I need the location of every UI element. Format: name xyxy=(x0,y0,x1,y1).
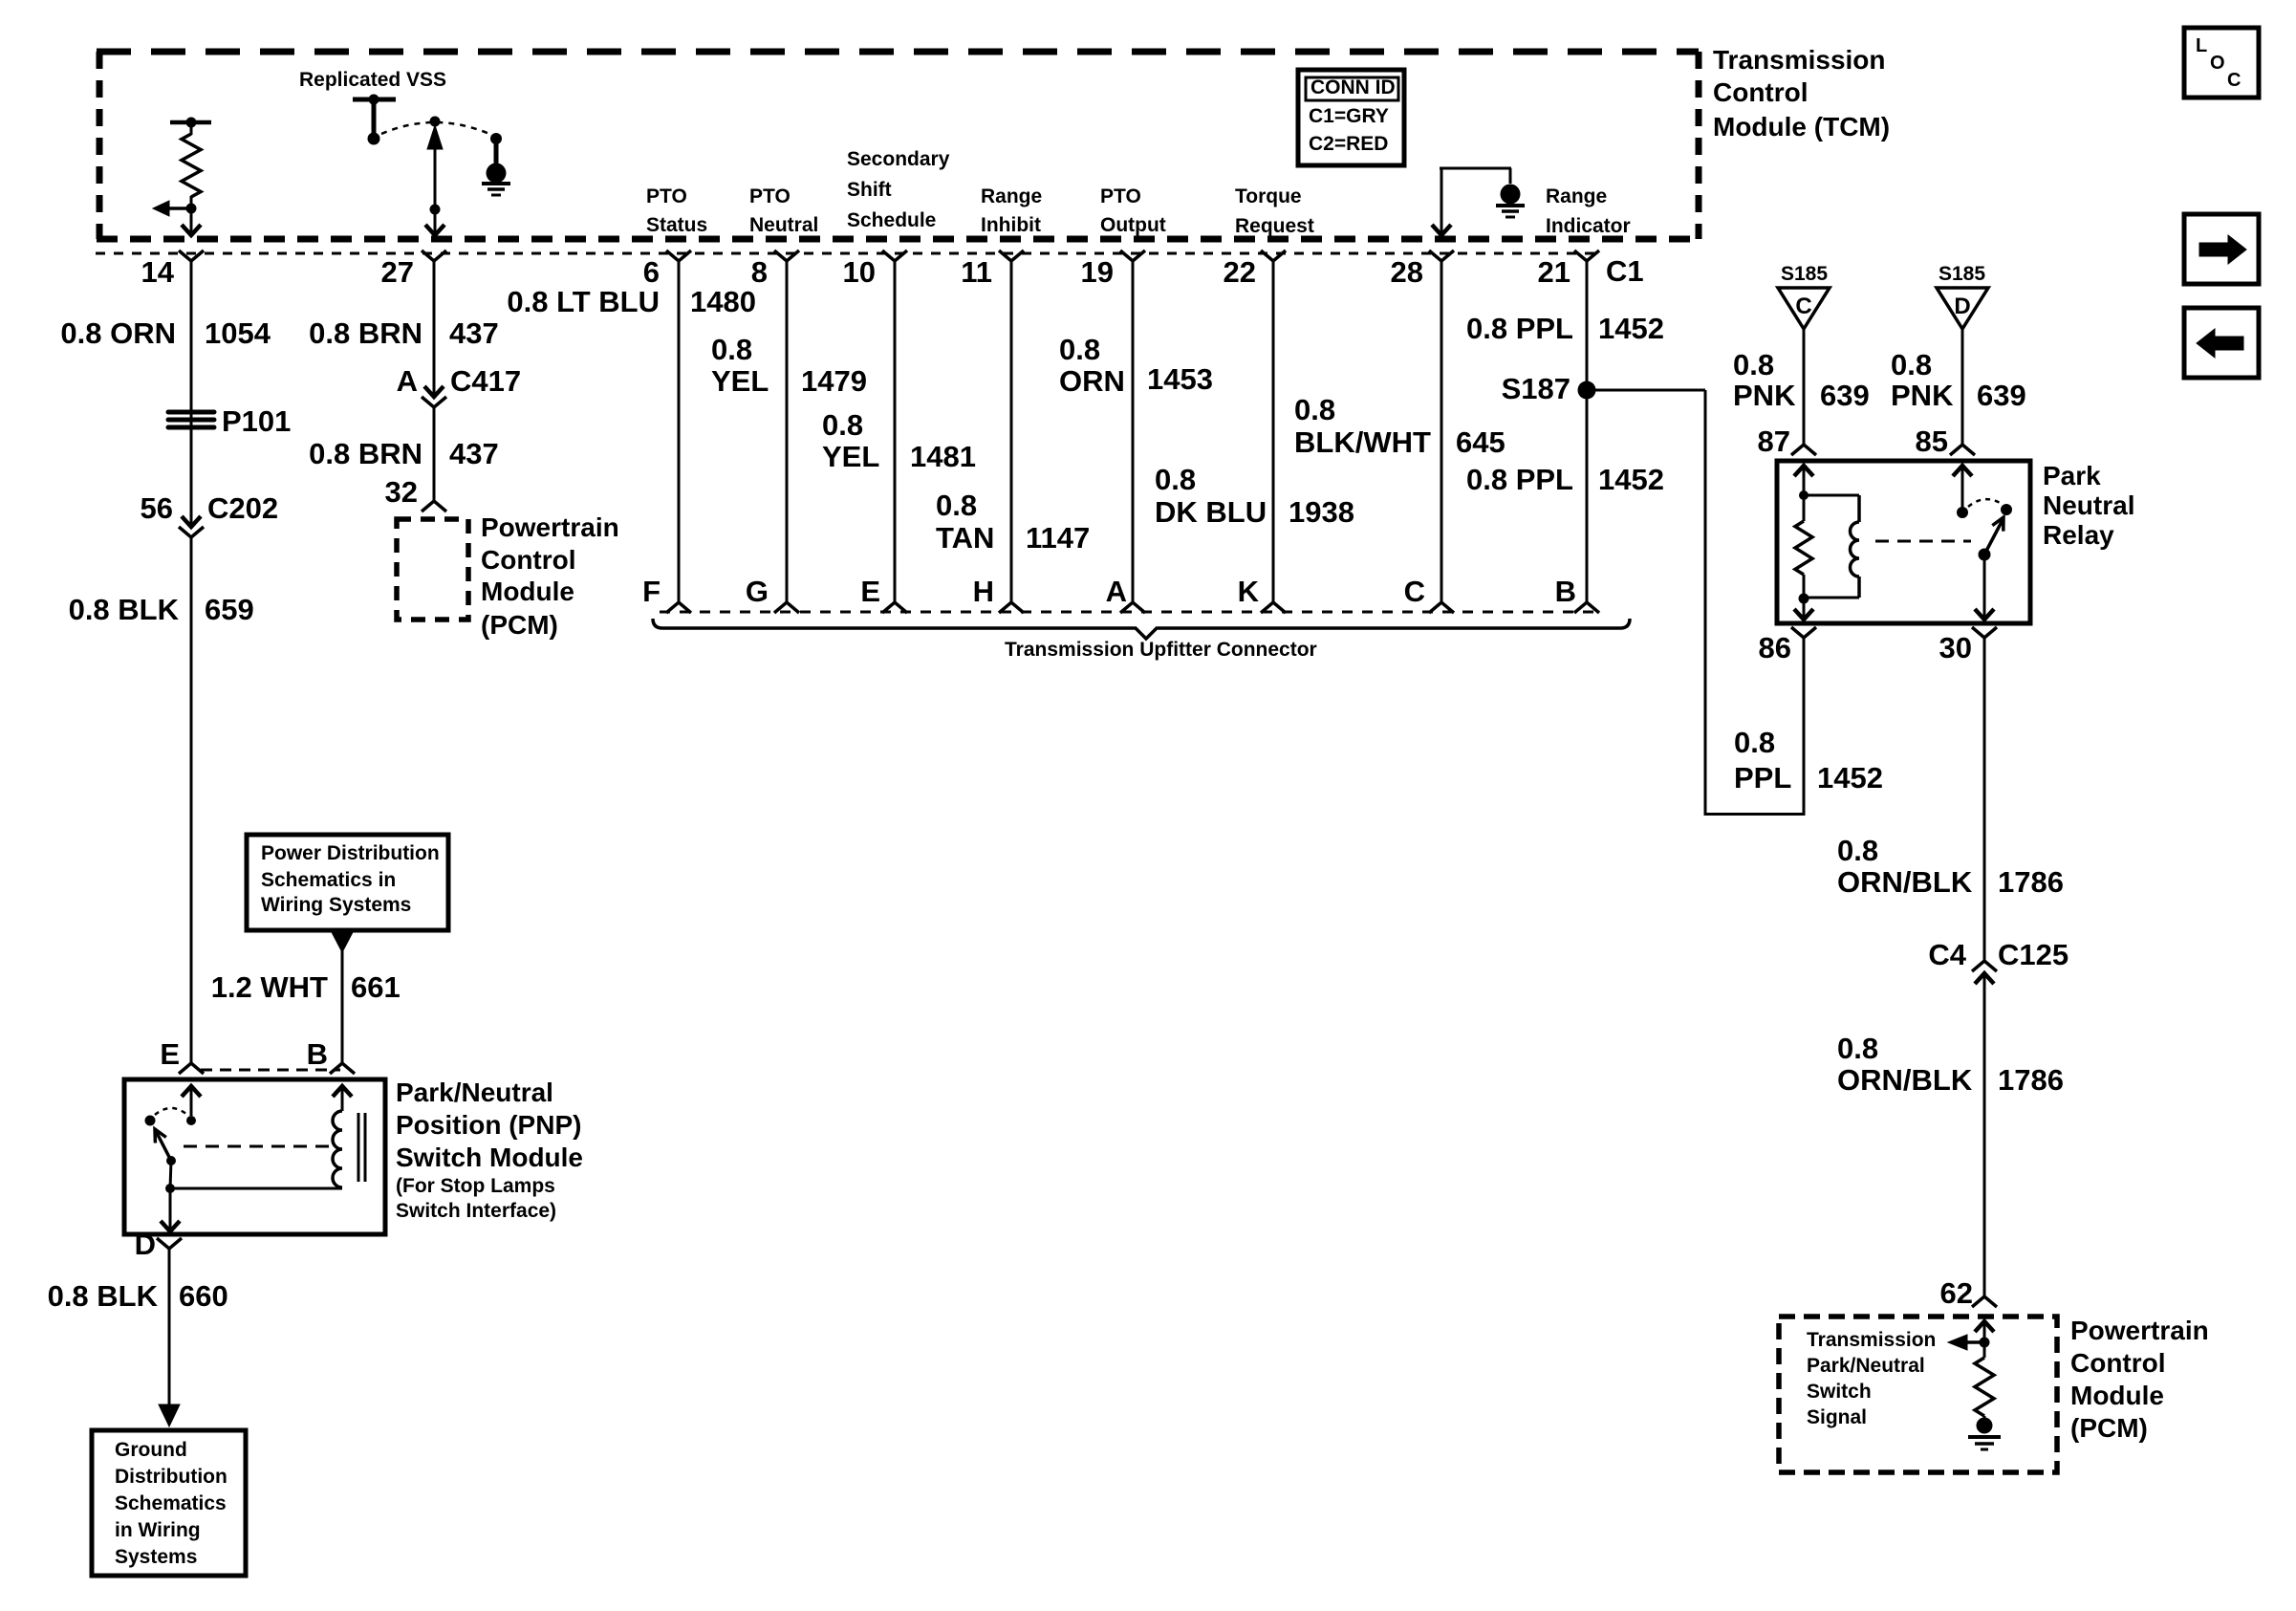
terminal: relay pin 30 terminal xyxy=(1972,627,1997,638)
wire: 0.8 BLK 659 to PNP switch pin E xyxy=(190,537,193,1063)
label: pin 87 xyxy=(1758,425,1790,458)
svg-text:Schematics in: Schematics in xyxy=(261,869,396,891)
label: pin 56 xyxy=(141,491,173,525)
svg-text:1786: 1786 xyxy=(1998,1063,2064,1097)
label: 0.8 ORN/BLK (lower) xyxy=(1837,1032,1973,1097)
svg-text:Switch Module: Switch Module xyxy=(396,1143,583,1172)
label: 0.8 ORN xyxy=(60,316,176,350)
svg-text:in Wiring: in Wiring xyxy=(115,1519,201,1541)
label: 0.8 BLK xyxy=(69,593,180,626)
label: PTO Status (pin 6) xyxy=(646,185,707,236)
label: 0.8 PPL (lower) xyxy=(1466,463,1573,496)
label: 1.2 WHT xyxy=(211,970,328,1004)
svg-text:1452: 1452 xyxy=(1817,761,1883,795)
wire: stub down to internal ground G2 xyxy=(1509,168,1512,184)
pin number 19 xyxy=(1081,255,1114,289)
terminal: upfitter connector terminal C xyxy=(1429,602,1454,613)
terminal: TCM connector terminal pin 28 xyxy=(1429,250,1454,261)
wire: dashed selection arc between VSS and pin 27 input xyxy=(381,122,489,134)
svg-text:Switch: Switch xyxy=(1807,1381,1872,1403)
module box: Powertrain Control Module (PCM) lower, dashed outline xyxy=(1779,1317,2057,1472)
wire: upfitter circuit to terminal C xyxy=(1440,261,1443,602)
wire: resistor bottom lead to junction xyxy=(190,196,193,212)
connector: TCM harness connector face (dashed) xyxy=(96,252,1598,255)
svg-text:30: 30 xyxy=(1939,631,1972,664)
node: PNP common junction dot xyxy=(165,1184,175,1193)
svg-text:Secondary: Secondary xyxy=(847,148,950,170)
svg-text:0.8 BRN: 0.8 BRN xyxy=(309,437,422,470)
svg-text:F: F xyxy=(642,575,661,608)
ground: PCM internal ground (dot with hatches) xyxy=(1968,1416,2001,1449)
switch: relay movable contact arm with arrowhead xyxy=(1984,517,2004,555)
svg-text:1479: 1479 xyxy=(801,364,867,398)
pin number 8 xyxy=(751,255,768,289)
connector C417: in-line connector symbol pin A xyxy=(422,386,446,407)
arrow: relay pin 87 entry arrowhead xyxy=(1794,466,1813,495)
node: VSS stub end dot xyxy=(368,133,380,145)
svg-text:PPL: PPL xyxy=(1734,761,1791,795)
svg-text:10: 10 xyxy=(843,255,876,289)
svg-text:659: 659 xyxy=(205,593,254,626)
svg-text:C: C xyxy=(2227,70,2241,91)
pin number 6 xyxy=(643,255,660,289)
wire: upfitter circuit to terminal A xyxy=(1132,261,1135,602)
svg-text:Park/Neutral: Park/Neutral xyxy=(396,1078,553,1107)
terminal: upfitter connector terminal K xyxy=(1261,602,1286,613)
wire: resistor bottom lead (relay) xyxy=(1803,575,1806,599)
svg-text:Range: Range xyxy=(1546,185,1607,207)
svg-text:C1: C1 xyxy=(1606,254,1644,288)
svg-text:PNK: PNK xyxy=(1891,379,1954,412)
svg-text:Distribution: Distribution xyxy=(115,1466,227,1488)
node: junction dot on pin 27 internal wire xyxy=(430,205,441,215)
pin letter C xyxy=(1404,575,1425,608)
svg-text:661: 661 xyxy=(351,970,401,1004)
label: Range Inhibit (pin 11) xyxy=(981,185,1042,236)
terminal: PCM pin 32 terminal xyxy=(422,501,446,512)
label: PTO Neutral (pin 8) xyxy=(749,185,818,236)
label: S185 (left) xyxy=(1781,263,1828,285)
svg-text:Transmission: Transmission xyxy=(1713,45,1886,75)
svg-text:56: 56 xyxy=(141,491,173,525)
label: Park Neutral Relay xyxy=(2043,461,2134,550)
svg-text:C: C xyxy=(1404,575,1425,608)
wire: 0.8 ORN 1054 from TCM pin 14 xyxy=(190,261,193,525)
label: C417 xyxy=(450,364,521,398)
wire: upfitter circuit to terminal K xyxy=(1272,261,1275,602)
svg-text:Signal: Signal xyxy=(1807,1406,1867,1428)
terminal: TCM connector terminal pin 27 xyxy=(422,250,446,261)
svg-text:CONN ID: CONN ID xyxy=(1310,76,1396,98)
svg-text:0.8: 0.8 xyxy=(1837,1032,1878,1065)
terminal: TCM connector terminal pin 21 xyxy=(1574,250,1599,261)
svg-text:C125: C125 xyxy=(1998,938,2069,971)
label: circuit 639 (right) xyxy=(1977,379,2026,412)
terminal: relay pin 86 terminal xyxy=(1791,627,1816,638)
pin number 22 xyxy=(1224,255,1256,289)
svg-text:0.8 BRN: 0.8 BRN xyxy=(309,316,422,350)
node: PNP switch NC contact dot xyxy=(145,1116,156,1126)
svg-text:P101: P101 xyxy=(222,404,291,438)
arrow: open arrowhead down to pin 27 xyxy=(425,225,444,235)
svg-text:0.8: 0.8 xyxy=(1733,348,1774,381)
terminal: TCM connector terminal pin 14 xyxy=(179,250,204,261)
label: pin 86 xyxy=(1759,631,1791,664)
svg-text:0.8: 0.8 xyxy=(1294,393,1335,426)
svg-text:Torque: Torque xyxy=(1235,185,1302,207)
svg-text:Inhibit: Inhibit xyxy=(981,214,1041,236)
label: pin 30 xyxy=(1939,631,1972,664)
label: 0.8 PNK (right) xyxy=(1891,348,1954,412)
terminal: PNP pin B terminal xyxy=(330,1063,355,1074)
pin letter A xyxy=(1106,575,1127,608)
wire: 0.8 PNK 639 to relay pin 87 xyxy=(1803,329,1806,445)
label: pin 32 xyxy=(385,475,418,509)
wire: coil top link xyxy=(1804,494,1859,497)
svg-text:E: E xyxy=(860,575,880,608)
node: splice S187 junction dot xyxy=(1578,381,1596,400)
svg-text:660: 660 xyxy=(179,1279,228,1313)
label: 0.8 PPL (branch) xyxy=(1734,726,1791,795)
label: 0.8 LT BLU xyxy=(507,285,660,318)
node: relay coil bottom junction dot xyxy=(1799,594,1809,604)
label: Transmission Upfitter Connector xyxy=(1005,639,1317,661)
label: C125 xyxy=(1998,938,2069,971)
label: circuit 1481 xyxy=(910,440,976,473)
svg-text:Module (TCM): Module (TCM) xyxy=(1713,112,1890,142)
arrow: relay pin 86 exit arrowhead xyxy=(1794,599,1813,620)
terminal: TCM connector terminal pin 19 xyxy=(1120,250,1145,261)
label: pin D xyxy=(135,1228,156,1261)
svg-text:Module: Module xyxy=(481,577,574,606)
relay box: Park Neutral Relay outline xyxy=(1777,461,2030,623)
arrow: solid feed arrowhead from power distribution xyxy=(332,932,353,952)
connector C125: in-line connector symbol pin C4 xyxy=(1972,961,1997,984)
node: PCM sense junction dot xyxy=(1980,1338,1990,1348)
arrow: pin 62 entry arrowhead (PCM) xyxy=(1975,1321,1994,1338)
wire: upfitter circuit to terminal E xyxy=(894,261,897,602)
svg-text:ORN/BLK: ORN/BLK xyxy=(1837,865,1973,899)
off-page connector: splice S185 branch C (triangle) xyxy=(1778,288,1830,329)
svg-text:K: K xyxy=(1238,575,1260,608)
label: Replicated VSS xyxy=(299,69,446,91)
svg-text:Neutral: Neutral xyxy=(749,214,818,236)
node: internal supply bar with junction dot (TCM pin 14 circuit) xyxy=(170,118,211,128)
label: circuit 437 (lower) xyxy=(449,437,499,470)
svg-text:1054: 1054 xyxy=(205,316,271,350)
svg-text:22: 22 xyxy=(1224,255,1256,289)
svg-text:Indicator: Indicator xyxy=(1546,215,1631,237)
label: circuit 1786 (lower) xyxy=(1998,1063,2064,1097)
svg-text:A: A xyxy=(1106,575,1127,608)
label: pin A xyxy=(397,364,418,398)
svg-text:437: 437 xyxy=(449,316,499,350)
label: C202 xyxy=(207,491,278,525)
svg-text:Transmission Upfitter Connecto: Transmission Upfitter Connector xyxy=(1005,639,1317,661)
terminal: upfitter connector terminal E xyxy=(882,602,907,613)
terminal: TCM connector terminal pin 22 xyxy=(1261,250,1286,261)
svg-text:C2=RED: C2=RED xyxy=(1309,133,1388,155)
svg-text:19: 19 xyxy=(1081,255,1114,289)
arrow: open arrowhead down to pin 28 xyxy=(1432,225,1451,235)
wire: pin 14 internal lead with arrowhead to connector xyxy=(182,208,201,235)
svg-text:437: 437 xyxy=(449,437,499,470)
svg-text:YEL: YEL xyxy=(711,364,769,398)
svg-text:62: 62 xyxy=(1940,1276,1973,1310)
arrow: PNP pin D exit arrowhead xyxy=(161,1188,180,1231)
label: 0.8 BLK/WHT (pin 28) xyxy=(1294,393,1431,459)
label: PTO Output (pin 19) xyxy=(1100,185,1166,236)
wire: 0.8 BRN 437 from TCM pin 27 xyxy=(433,261,436,396)
svg-text:1481: 1481 xyxy=(910,440,976,473)
label: 0.8 BRN (upper) xyxy=(309,316,422,350)
core: PNP coil core lines xyxy=(358,1113,365,1182)
svg-text:1938: 1938 xyxy=(1289,495,1354,529)
svg-text:Powertrain: Powertrain xyxy=(481,512,619,542)
wire: 0.8 ORN/BLK 1786 lower segment xyxy=(1983,973,1986,1296)
svg-text:Transmission: Transmission xyxy=(1807,1329,1936,1351)
wire: upfitter circuit to terminal B xyxy=(1586,261,1589,602)
svg-text:Power Distribution: Power Distribution xyxy=(261,842,440,864)
label: circuit 660 xyxy=(179,1279,228,1313)
svg-text:21: 21 xyxy=(1538,255,1570,289)
wire: 0.8 BRN 437 to PCM pin 32 xyxy=(433,407,436,501)
label: Transmission Park/Neutral Switch Signal xyxy=(1807,1329,1936,1428)
pin letter G xyxy=(746,575,769,608)
wire: 0.8 BLK 660 from PNP pin D xyxy=(168,1249,171,1405)
svg-text:0.8: 0.8 xyxy=(711,333,752,366)
svg-text:G: G xyxy=(746,575,769,608)
svg-text:Switch Interface): Switch Interface) xyxy=(396,1200,556,1222)
label: 0.8 YEL (pin 10) xyxy=(822,408,879,473)
label: 0.8 DK BLU (pin 22) xyxy=(1155,463,1267,529)
svg-text:Replicated VSS: Replicated VSS xyxy=(299,69,446,91)
arrow: relay pin 85 entry arrowhead xyxy=(1953,466,1972,508)
terminal: upfitter connector terminal G xyxy=(774,602,799,613)
svg-text:S187: S187 xyxy=(1502,372,1570,405)
label: 0.8 PPL (upper) xyxy=(1466,312,1573,345)
svg-text:0.8: 0.8 xyxy=(1837,834,1878,867)
svg-text:Relay: Relay xyxy=(2043,520,2114,550)
label: 0.8 BLK (660) xyxy=(48,1279,159,1313)
pin number 10 xyxy=(843,255,876,289)
label: Powertrain Control Module (PCM) lower xyxy=(2070,1316,2209,1443)
label: circuit 1147 xyxy=(1026,521,1090,555)
svg-text:1480: 1480 xyxy=(690,285,756,318)
wire: upfitter circuit to terminal G xyxy=(786,261,789,602)
wire: coil bottom link xyxy=(1804,597,1859,599)
svg-text:Control: Control xyxy=(481,545,576,575)
svg-text:0.8 PPL: 0.8 PPL xyxy=(1466,312,1573,345)
terminal: TCM connector terminal pin 8 xyxy=(774,250,799,261)
svg-text:0.8 BLK: 0.8 BLK xyxy=(69,593,180,626)
label: 0.8 TAN (pin 11) xyxy=(936,489,994,555)
label: 0.8 ORN (pin 19) xyxy=(1059,333,1125,398)
connector: Transmission Upfitter Connector face (dashed) xyxy=(660,611,1596,614)
terminal: upfitter connector terminal B xyxy=(1574,602,1599,613)
svg-text:PTO: PTO xyxy=(646,185,687,207)
pin label C1 (connector C1) xyxy=(1606,254,1644,288)
pin letter F xyxy=(642,575,661,608)
terminal: TCM connector terminal pin 11 xyxy=(999,250,1024,261)
svg-text:Systems: Systems xyxy=(115,1546,197,1568)
node: PNP switch contact dot (pin E side) xyxy=(186,1116,196,1125)
svg-text:0.8: 0.8 xyxy=(1891,348,1932,381)
svg-text:1452: 1452 xyxy=(1598,463,1664,496)
switch box: Park/Neutral Position (PNP) Switch Module outline xyxy=(124,1079,385,1234)
label: circuit 1786 (upper) xyxy=(1998,865,2064,899)
wire: 0.8 PNK 639 to relay pin 85 xyxy=(1961,329,1964,445)
svg-text:Range: Range xyxy=(981,185,1042,207)
svg-text:0.8: 0.8 xyxy=(822,408,863,442)
ground: internal ground symbol G1 (dot with hatches) xyxy=(482,163,510,196)
switch: PNP movable contact arm with arrowhead xyxy=(155,1129,171,1161)
svg-text:0.8 LT BLU: 0.8 LT BLU xyxy=(507,285,660,318)
terminal: PCM pin 62 terminal xyxy=(1972,1296,1997,1307)
pin number 28 xyxy=(1391,255,1423,289)
svg-text:1786: 1786 xyxy=(1998,865,2064,899)
wire: stub to internal ground G1 xyxy=(494,142,499,164)
svg-text:Output: Output xyxy=(1100,214,1166,236)
svg-text:(PCM): (PCM) xyxy=(2070,1413,2148,1443)
svg-text:ORN: ORN xyxy=(1059,364,1125,398)
svg-text:C202: C202 xyxy=(207,491,278,525)
wire: PNP coil return link xyxy=(170,1187,342,1190)
brace: transmission upfitter connector group xyxy=(653,619,1630,639)
svg-text:11: 11 xyxy=(961,255,992,289)
wire: resistor top lead (relay) xyxy=(1803,495,1806,521)
svg-text:C: C xyxy=(1795,294,1811,319)
label: circuit 1054 xyxy=(205,316,271,350)
svg-text:PTO: PTO xyxy=(1100,185,1141,207)
label: 0.8 YEL (pin 8) xyxy=(711,333,769,398)
terminal: upfitter connector terminal H xyxy=(999,602,1024,613)
svg-text:PNK: PNK xyxy=(1733,379,1796,412)
label: pin 62 xyxy=(1940,1276,1973,1310)
connector: PNP switch module connector (dashed) xyxy=(201,1069,340,1072)
svg-text:14: 14 xyxy=(141,255,175,289)
svg-text:PTO: PTO xyxy=(749,185,791,207)
svg-text:27: 27 xyxy=(381,255,414,289)
arrow: solid up arrowhead on pin 27 internal wire xyxy=(427,125,443,149)
svg-text:C4: C4 xyxy=(1928,938,1966,971)
svg-text:Schedule: Schedule xyxy=(847,209,936,231)
svg-text:1452: 1452 xyxy=(1598,312,1664,345)
wire: resistor top lead xyxy=(190,122,193,135)
label: circuit 1479 xyxy=(801,364,867,398)
label: Secondary Shift Schedule (pin 10) xyxy=(847,148,950,231)
label: Torque Request (pin 22) xyxy=(1235,185,1314,237)
wire: 1.2 WHT 661 to PNP switch pin B xyxy=(341,950,344,1063)
svg-text:L: L xyxy=(2196,35,2207,56)
svg-text:Wiring Systems: Wiring Systems xyxy=(261,894,411,916)
label: 0.8 PNK (left) xyxy=(1733,348,1796,412)
wire: pin 27 internal vertical wire xyxy=(434,143,437,234)
label: Transmission Control Module (TCM) xyxy=(1713,45,1890,142)
svg-text:Park: Park xyxy=(2043,461,2101,490)
svg-text:O: O xyxy=(2210,53,2225,74)
svg-text:B: B xyxy=(307,1037,328,1071)
wire: VSS stub xyxy=(372,99,377,134)
label: Powertrain Control Module (PCM) xyxy=(481,512,619,640)
svg-text:D: D xyxy=(135,1228,156,1261)
node: arc apex dot above pin 27 arrow xyxy=(430,117,441,127)
svg-text:1453: 1453 xyxy=(1147,362,1213,396)
terminal: TCM connector terminal pin 6 xyxy=(666,250,691,261)
pin number 21 xyxy=(1538,255,1570,289)
node: Replicated VSS terminal bar with dot xyxy=(353,95,396,105)
label: S185 (right) xyxy=(1939,263,1985,285)
label: circuit 661 xyxy=(351,970,401,1004)
wire: pin 28 internal hook to ground xyxy=(1440,168,1511,234)
svg-text:Powertrain: Powertrain xyxy=(2070,1316,2209,1345)
node: relay switch pivot dot xyxy=(1979,549,1991,561)
wire: dashed throw arc (PNP switch) xyxy=(155,1108,187,1115)
legend box: CONN ID C1=GRY C2=RED xyxy=(1298,70,1404,165)
pin letter E xyxy=(860,575,880,608)
svg-text:Module: Module xyxy=(2070,1381,2164,1410)
resistor: internal pull-up inside TCM on pin 14 xyxy=(182,134,201,197)
node: dot above internal ground G1 xyxy=(490,133,502,144)
pin number 14 xyxy=(141,255,175,289)
node: PNP switch pivot dot xyxy=(166,1156,176,1165)
svg-text:TAN: TAN xyxy=(936,521,994,555)
svg-text:C1=GRY: C1=GRY xyxy=(1309,105,1389,127)
arrow: internal signal arrow pointing left (TCM pin 14) xyxy=(153,201,191,216)
arrow: PNP pin B entry arrowhead xyxy=(333,1086,352,1111)
svg-text:1.2 WHT: 1.2 WHT xyxy=(211,970,328,1004)
svg-text:87: 87 xyxy=(1758,425,1790,458)
svg-text:Position (PNP): Position (PNP) xyxy=(396,1110,581,1140)
svg-text:(For Stop Lamps: (For Stop Lamps xyxy=(396,1175,555,1197)
svg-text:A: A xyxy=(397,364,418,398)
terminal: PNP pin E terminal xyxy=(179,1063,204,1074)
pin letter B xyxy=(1555,575,1576,608)
wire: S187 branch to park neutral relay pin 86 xyxy=(1592,390,1804,816)
arrow: relay pin 30 exit arrowhead xyxy=(1975,555,1994,620)
svg-text:0.8 BLK: 0.8 BLK xyxy=(48,1279,159,1313)
label: splice S187 xyxy=(1502,372,1570,405)
svg-text:ORN/BLK: ORN/BLK xyxy=(1837,1063,1973,1097)
label: 0.8 BRN (lower) xyxy=(309,437,422,470)
label: circuit 1452 (upper) xyxy=(1598,312,1664,345)
svg-text:0.8: 0.8 xyxy=(936,489,977,522)
svg-text:Park/Neutral: Park/Neutral xyxy=(1807,1355,1925,1377)
pin number 27 xyxy=(381,255,414,289)
splice P101: pass-through grommet symbol xyxy=(168,412,214,427)
label: circuit 1452 (branch) xyxy=(1817,761,1883,795)
svg-text:D: D xyxy=(1954,294,1970,319)
legend box: arrow left xyxy=(2184,308,2259,378)
label: pin 85 xyxy=(1916,425,1948,458)
svg-text:C417: C417 xyxy=(450,364,521,398)
label: Power Distribution Schematics in Wiring Systems xyxy=(261,842,440,916)
connector C202: in-line connector symbol pin 56 xyxy=(179,516,204,537)
terminal: TCM connector terminal pin 10 xyxy=(882,250,907,261)
label: circuit 437 (upper) xyxy=(449,316,499,350)
label: pin E xyxy=(160,1037,180,1071)
label: Park/Neutral Position (PNP) Switch Module xyxy=(396,1078,583,1222)
terminal: relay pin 85 terminal xyxy=(1950,445,1975,455)
label: Ground Distribution Schematics in Wiring Systems xyxy=(115,1439,227,1568)
terminal: upfitter connector terminal F xyxy=(666,602,691,613)
label: circuit 645 xyxy=(1456,425,1505,459)
node: relay switch NO contact dot xyxy=(2001,504,2012,515)
svg-text:85: 85 xyxy=(1916,425,1948,458)
svg-text:Shift: Shift xyxy=(847,179,892,201)
off-page connector: splice S185 branch D (triangle) xyxy=(1937,288,1988,329)
svg-text:(PCM): (PCM) xyxy=(481,610,558,640)
